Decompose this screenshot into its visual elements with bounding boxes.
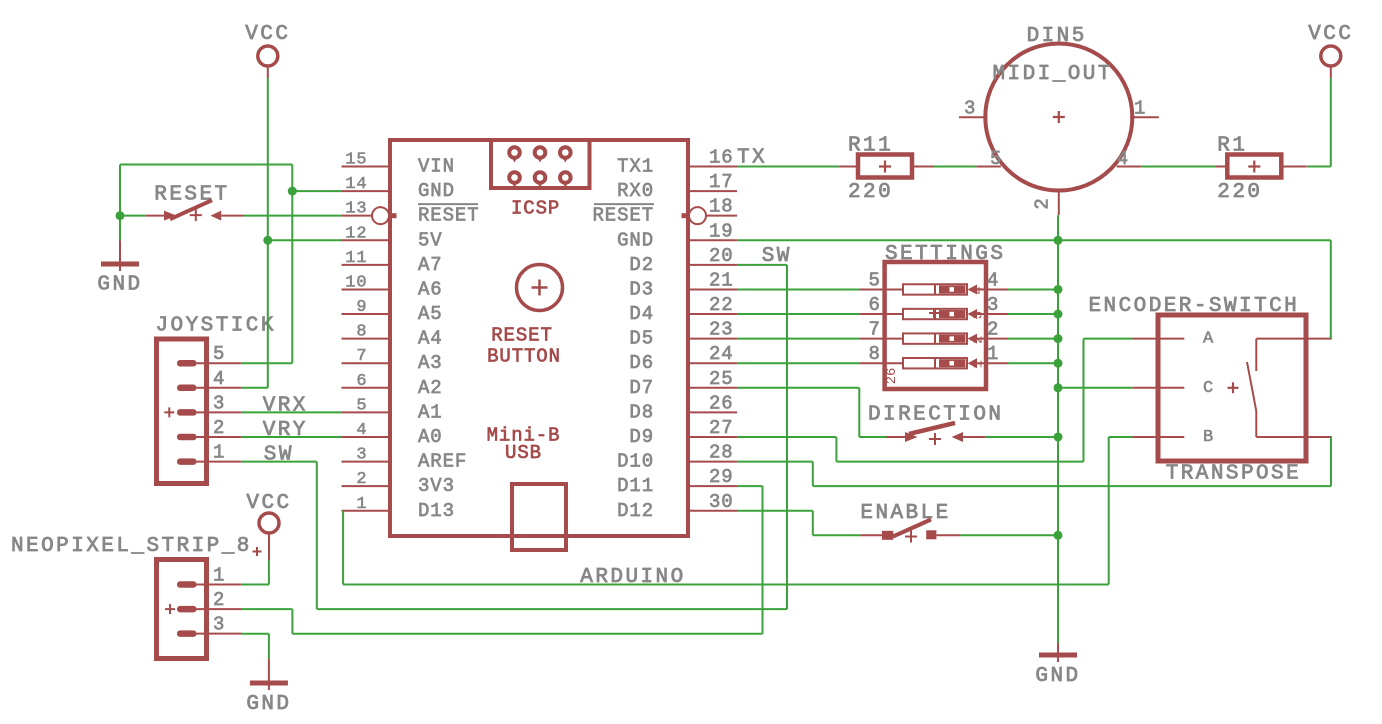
wire neopixel pin2 (242, 608, 293, 610)
svg-text:8: 8 (356, 323, 367, 342)
arduino left pin 11 (A7) (342, 264, 391, 266)
svg-text:1: 1 (987, 343, 999, 365)
svg-text:VCC: VCC (245, 23, 290, 46)
wire d9 up to A (1083, 339, 1085, 462)
wire dip right 2 (1008, 313, 1058, 315)
svg-text:4: 4 (213, 368, 225, 390)
junction (1054, 383, 1063, 392)
wire dip right 1 (1008, 288, 1058, 290)
svg-text:3: 3 (987, 294, 999, 316)
svg-text:5V: 5V (418, 229, 443, 251)
svg-text:JOYSTICK: JOYSTICK (156, 315, 276, 338)
svg-text:RX0: RX0 (617, 180, 654, 202)
wire sw bottom (317, 608, 787, 610)
wire d9 down (835, 437, 837, 462)
svg-text:11: 11 (345, 249, 367, 268)
svg-text:6: 6 (868, 294, 880, 316)
svg-text:RESET: RESET (491, 325, 553, 347)
arduino right pin 27 (D9) (688, 436, 737, 438)
wire vcc-left vertical (267, 78, 269, 388)
wire vcc to pin12 (268, 239, 342, 241)
wire d10 out (737, 461, 813, 463)
junction (1054, 285, 1063, 294)
arduino right pin 25 (D7) (688, 387, 737, 389)
arduino left pin 2 (3V3) (342, 485, 391, 487)
svg-text:USB: USB (505, 442, 542, 464)
svg-text:RESET: RESET (418, 205, 480, 227)
wire d13 down (342, 511, 344, 585)
svg-text:TRANSPOSE: TRANSPOSE (1166, 462, 1301, 485)
arduino right pin 24 (D6) (688, 362, 737, 364)
svg-text:D3: D3 (629, 278, 654, 300)
wire tx pin16 to R11 (737, 166, 839, 168)
svg-text:D5: D5 (629, 328, 654, 350)
svg-text:2: 2 (213, 417, 225, 439)
svg-text:4: 4 (356, 421, 367, 440)
svg-text:SW: SW (762, 245, 792, 268)
svg-text:12: 12 (345, 224, 367, 243)
wire vcc to joystick4 (242, 387, 268, 389)
svg-text:25: 25 (709, 368, 734, 390)
neopixel pin 2 (177, 606, 197, 613)
svg-text:ENABLE: ENABLE (860, 502, 950, 525)
svg-text:5: 5 (213, 343, 225, 365)
svg-text:19: 19 (709, 220, 734, 242)
svg-text:5: 5 (356, 396, 367, 415)
arduino right pin 26 (D8) (688, 411, 737, 413)
wire sw to pin20 (737, 264, 787, 266)
svg-text:SETTINGS: SETTINGS (885, 243, 1005, 266)
dip switch 2 (860, 313, 903, 315)
arduino right pin 28 (D10) (688, 461, 737, 463)
encoder-switch box (1158, 315, 1306, 461)
svg-text:VCC: VCC (1308, 23, 1353, 46)
svg-text:SW: SW (264, 444, 294, 467)
svg-text:2: 2 (1032, 197, 1054, 209)
DIN5 MIDI_OUT connector (985, 44, 1132, 191)
wire dip left 4 (737, 362, 860, 364)
svg-text:VRY: VRY (263, 419, 308, 442)
wire d12 to enable (813, 534, 861, 536)
wire gnd S1 vertical (1330, 240, 1332, 338)
joystick pin 1 (177, 458, 197, 465)
resistor R11 220 (839, 166, 858, 168)
junction (288, 187, 297, 196)
svg-text:R11: R11 (848, 135, 893, 158)
arduino right pin 30 (D12) (688, 510, 737, 512)
svg-text:4: 4 (971, 286, 987, 294)
arduino left pin 7 (A3) (342, 362, 391, 364)
svg-text:ICSP: ICSP (511, 197, 560, 219)
svg-text:A6: A6 (418, 278, 443, 300)
svg-text:20: 20 (709, 245, 734, 267)
ICSP pad (509, 172, 520, 183)
resistor R1 220 (1208, 166, 1227, 168)
wire pin19 gnd (737, 239, 1058, 241)
svg-text:1: 1 (213, 442, 225, 464)
wire neo gnd vertical (268, 634, 270, 659)
svg-text:A4: A4 (418, 328, 443, 350)
junction (1054, 432, 1063, 441)
svg-text:GND: GND (1035, 665, 1080, 688)
wire d10 down (812, 462, 814, 487)
svg-text:D9: D9 (629, 426, 654, 448)
svg-text:4: 4 (1117, 148, 1129, 170)
wire joystick pin5 to rail (242, 362, 293, 364)
arduino left pin 3 (AREF) (342, 461, 391, 463)
arduino left pin 4 (A0) (342, 436, 391, 438)
wire vcc neo vertical (268, 560, 270, 585)
svg-text:3: 3 (356, 446, 367, 465)
svg-text:D7: D7 (629, 377, 654, 399)
svg-text:R1: R1 (1217, 135, 1247, 158)
arduino right pin 23 (D5) (688, 338, 737, 340)
svg-text:ENCODER-SWITCH: ENCODER-SWITCH (1089, 295, 1300, 318)
settings DIP switch box (885, 262, 986, 389)
arduino left pin 12 (5V) (342, 239, 391, 241)
DIN5 pin 3 (959, 116, 987, 118)
svg-text:18: 18 (709, 196, 734, 218)
wire d11 out (737, 485, 763, 487)
encoder switch lever (1247, 362, 1256, 411)
wire reset sw left (120, 215, 145, 217)
arduino right pin 22 (D4) (688, 313, 737, 315)
svg-text:D2: D2 (629, 254, 654, 276)
svg-text:5: 5 (868, 269, 880, 291)
svg-text:GND: GND (97, 274, 142, 297)
pin 13 inversion bubble (372, 207, 389, 224)
svg-text:2: 2 (213, 589, 225, 611)
arduino left pin 9 (A5) (342, 313, 391, 315)
joystick pin 5 (177, 360, 197, 367)
encoder switch S2 (1256, 436, 1332, 438)
wire to pin B (1109, 436, 1133, 438)
wire neopixel pin1 vcc (242, 584, 269, 586)
wire R11 to DIN5 (934, 166, 976, 168)
svg-text:1: 1 (1134, 97, 1146, 119)
arduino U1 main box (390, 140, 688, 536)
svg-text:GND: GND (617, 229, 654, 251)
wire neopixel pin3 (242, 633, 269, 635)
joystick pin 3 (177, 409, 197, 416)
junction (263, 236, 272, 245)
svg-text:VRX: VRX (263, 394, 308, 417)
arduino right pin 20 (D2) (688, 264, 737, 266)
wire dip right 3 (1008, 338, 1058, 340)
wire dip right 4 (1008, 362, 1058, 364)
wire vcc-right vertical (1330, 78, 1332, 167)
DIN5 pin 5 (976, 166, 1001, 168)
svg-text:17: 17 (709, 171, 734, 193)
svg-text:23: 23 (709, 319, 734, 341)
svg-text:D6: D6 (629, 352, 654, 374)
svg-text:A2: A2 (418, 377, 443, 399)
joystick pin 2 (177, 434, 197, 441)
svg-text:D11: D11 (617, 475, 654, 497)
arduino left pin 1 (D13) (342, 510, 391, 512)
junction (116, 211, 125, 220)
arduino left pin 6 (A2) (342, 387, 391, 389)
svg-text:DIN5: DIN5 (1027, 25, 1087, 48)
wire sw vertical right (786, 265, 788, 609)
svg-text:3: 3 (971, 311, 987, 319)
neopixel pin 3 (177, 630, 197, 637)
joystick connector box (157, 339, 207, 484)
dip switch 3 (860, 338, 903, 340)
svg-text:VCC: VCC (246, 492, 291, 515)
svg-text:6: 6 (356, 372, 367, 391)
svg-text:D12: D12 (617, 500, 654, 522)
wire d13 across (343, 584, 1109, 586)
wire d10 across (813, 485, 1331, 487)
svg-text:D10: D10 (617, 451, 654, 473)
svg-text:3: 3 (964, 97, 976, 119)
dip switch 4 (860, 362, 903, 364)
wire d13 up to B (1108, 437, 1110, 585)
svg-text:9: 9 (356, 298, 367, 317)
svg-text:27: 27 (709, 417, 734, 439)
wire sw vertical left (316, 462, 318, 610)
svg-text:DIRECTION: DIRECTION (868, 404, 1003, 427)
neopixel pin 1 (177, 581, 197, 588)
DIN5 pin 4 (1117, 166, 1142, 168)
svg-text:2: 2 (356, 470, 367, 489)
svg-text:21: 21 (709, 269, 734, 291)
encoder switch S1 (1256, 338, 1332, 340)
wire gnd main vertical (1057, 215, 1059, 642)
svg-text:RESET: RESET (592, 205, 654, 227)
wire gnd to S1 top (1058, 239, 1331, 241)
svg-text:TX: TX (737, 147, 767, 170)
wire d11 across (292, 633, 762, 635)
svg-text:AREF: AREF (418, 451, 467, 473)
arduino right pin 19 (GND) (688, 239, 737, 241)
wire pin14 gnd (292, 190, 342, 192)
arduino right pin 18 (RESET) (688, 215, 737, 217)
svg-text:10: 10 (345, 273, 367, 292)
pin 18 inversion bubble (689, 207, 706, 224)
arduino left pin 13 (RESET) (342, 215, 391, 217)
svg-text:A7: A7 (418, 254, 443, 276)
wire dip left 3 (737, 338, 860, 340)
svg-text:VIN: VIN (418, 156, 455, 178)
svg-text:30: 30 (709, 491, 734, 513)
svg-text:B: B (1203, 428, 1213, 447)
svg-text:5: 5 (990, 148, 1002, 170)
wire dip left 2 (737, 313, 860, 315)
wire enable to gnd (960, 534, 1058, 536)
ICSP pad (535, 172, 546, 183)
reset button (517, 265, 563, 311)
svg-text:22: 22 (709, 294, 734, 316)
svg-text:7: 7 (868, 319, 880, 341)
svg-text:29: 29 (709, 466, 734, 488)
svg-text:2: 2 (987, 319, 999, 341)
arduino right pin 21 (D3) (688, 288, 737, 290)
GND symbol (left) (119, 240, 121, 271)
wire d11 down (762, 486, 764, 634)
arduino right pin 16 (TX1) (688, 166, 737, 168)
GND symbol (neopixel) (268, 659, 270, 690)
svg-text:3: 3 (213, 392, 225, 414)
svg-text:1: 1 (213, 565, 225, 587)
svg-text:8: 8 (868, 343, 880, 365)
svg-text:26: 26 (709, 392, 734, 414)
DIN5 pin 1 (1130, 116, 1159, 118)
wire s2 vertical (1330, 437, 1332, 486)
arduino left pin 5 (A1) (342, 411, 391, 413)
svg-text:A5: A5 (418, 303, 443, 325)
wire d12 out (737, 510, 813, 512)
ICSP pad (560, 147, 571, 158)
junction (1054, 334, 1063, 343)
neopixel connector box (157, 560, 207, 659)
svg-text:D13: D13 (418, 500, 455, 522)
wire vrx (242, 411, 342, 413)
svg-text:RESET: RESET (154, 184, 229, 207)
svg-text:13: 13 (345, 200, 367, 219)
arduino left pin 14 (GND) (342, 190, 391, 192)
svg-text:A: A (1203, 330, 1214, 349)
svg-text:D8: D8 (629, 401, 654, 423)
ICSP header box (491, 140, 590, 188)
svg-text:28: 28 (709, 442, 734, 464)
wire dip left 1 (737, 288, 860, 290)
wire d9 out (737, 436, 836, 438)
wire sw joystick1 (242, 461, 317, 463)
svg-text:3: 3 (213, 614, 225, 636)
wire d7 to direction (859, 436, 886, 438)
svg-text:220: 220 (848, 181, 893, 204)
wire to pin A (1084, 338, 1133, 340)
svg-text:220: 220 (1217, 181, 1262, 204)
svg-text:15: 15 (345, 151, 367, 170)
svg-text:TX1: TX1 (617, 156, 654, 178)
wire gnd to encoder C (1058, 387, 1132, 389)
svg-text:GND: GND (246, 693, 291, 716)
arduino right pin 29 (D11) (688, 485, 737, 487)
wire d11 up (291, 609, 293, 634)
svg-text:A3: A3 (418, 352, 443, 374)
svg-text:ARDUINO: ARDUINO (580, 566, 685, 589)
junction (1054, 236, 1063, 245)
VCC supply (top right) (1321, 46, 1341, 66)
svg-text:MIDI_OUT: MIDI_OUT (992, 63, 1112, 86)
arduino right pin 17 (RX0) (688, 190, 737, 192)
wire gnd-left vertical (119, 165, 121, 241)
wire R1 to vcc (1307, 166, 1331, 168)
wire d7 out (737, 387, 859, 389)
svg-text:A0: A0 (418, 426, 443, 448)
wire gnd rail to joystick5 (291, 165, 293, 364)
svg-text:C: C (1203, 379, 1213, 398)
wire gnd-left top (120, 164, 292, 166)
arduino left pin 15 (VIN) (342, 166, 391, 168)
VCC supply (top left) (258, 46, 278, 66)
svg-text:NEOPIXEL_STRIP_8: NEOPIXEL_STRIP_8 (11, 535, 252, 558)
svg-text:2: 2 (971, 335, 987, 343)
wire direction to gnd (986, 436, 1058, 438)
encoder pin A (1132, 338, 1184, 340)
wire d7 down (858, 388, 860, 437)
ICSP pad (560, 172, 571, 183)
DIN5 pin 2 (1058, 189, 1060, 216)
svg-text:24: 24 (709, 343, 734, 365)
ICSP pad (535, 147, 546, 158)
svg-text:3V3: 3V3 (418, 475, 455, 497)
svg-text:4: 4 (987, 269, 999, 291)
svg-text:16: 16 (709, 147, 734, 169)
svg-text:26: 26 (884, 368, 900, 385)
wire DIN4 to R1 (1141, 166, 1216, 168)
arduino left pin 10 (A6) (342, 288, 391, 290)
encoder pin C (1132, 387, 1184, 389)
ICSP pad (509, 147, 520, 158)
wire d12 down (812, 511, 814, 536)
svg-text:GND: GND (418, 180, 455, 202)
wire d9 across (836, 461, 1083, 463)
GND symbol (main right) (1057, 642, 1059, 662)
Mini-B USB box (512, 484, 566, 550)
encoder pin B (1132, 436, 1184, 438)
svg-text:A1: A1 (418, 401, 443, 423)
svg-text:7: 7 (356, 347, 367, 366)
joystick pin 4 (177, 385, 197, 392)
junction (1054, 359, 1063, 368)
svg-text:14: 14 (345, 175, 367, 194)
svg-text:BUTTON: BUTTON (487, 346, 561, 368)
dip switch 1 (860, 288, 903, 290)
svg-text:1: 1 (971, 360, 987, 368)
arduino left pin 8 (A4) (342, 338, 391, 340)
wire vry (242, 436, 342, 438)
svg-text:1: 1 (356, 495, 367, 514)
VCC supply (neopixel) (259, 513, 279, 533)
junction (1054, 310, 1063, 319)
svg-text:D4: D4 (629, 303, 654, 325)
junction (1054, 531, 1063, 540)
wire reset sw to pin13 (243, 215, 342, 217)
